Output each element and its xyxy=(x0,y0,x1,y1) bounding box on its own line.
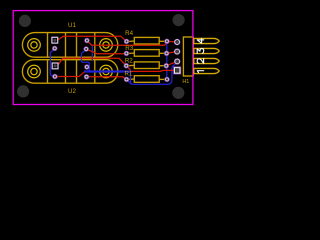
blue trace R2L R1L to H1 pin2 xyxy=(126,62,177,85)
pad R2 right xyxy=(164,63,169,68)
pad H1 pin2 xyxy=(174,58,181,65)
U2 big pad right xyxy=(100,65,113,78)
pad U2 pin square xyxy=(52,63,58,69)
H1 pin 1 xyxy=(194,68,219,73)
svg-text:H1: H1 xyxy=(182,79,189,85)
pad U1 col2 bottom xyxy=(84,46,89,51)
svg-text:R3: R3 xyxy=(125,45,133,52)
svg-text:U1: U1 xyxy=(68,22,76,29)
red trace U1 col2 bottom to R3 left xyxy=(86,49,126,54)
mounting hole bottom-right xyxy=(172,87,184,99)
svg-text:R1: R1 xyxy=(125,71,133,78)
mounting hole bottom-left xyxy=(17,85,29,97)
pad R3 right xyxy=(164,51,169,56)
blue stub from U1 col2 top xyxy=(90,43,93,60)
resistor R1 body xyxy=(129,76,164,83)
relay U2 silkscreen outline xyxy=(22,60,117,83)
H1 pin 3 xyxy=(194,48,219,53)
U1 big pad left xyxy=(28,39,41,52)
svg-text:U2: U2 xyxy=(68,88,76,95)
mounting hole top-right xyxy=(173,14,185,26)
red trace U1 col2 top to R4 right xyxy=(87,41,167,46)
pad U1 round below square xyxy=(52,46,57,51)
pad H1 pin3 xyxy=(174,48,181,55)
pin number 1 xyxy=(197,71,204,73)
red trace to H1 pin1 square xyxy=(130,70,177,71)
pin number 4 xyxy=(197,38,204,43)
red trace U2 col2 bottom to R1 left xyxy=(87,77,127,80)
blue bus right pads R4-R3-R2-R1 xyxy=(166,41,168,79)
H1 pin 2 xyxy=(194,58,219,63)
board edge cuts outline xyxy=(13,11,193,105)
resistor R2 body xyxy=(129,62,164,69)
red trace U2 round to layer change xyxy=(55,72,85,77)
resistor R4 body xyxy=(129,37,164,44)
blue branch R1 left pad xyxy=(127,79,132,84)
red trace U2 square to R2 left xyxy=(58,58,126,65)
red trace R4 right to H1 pin4 xyxy=(167,40,177,43)
pad U2 col2 top xyxy=(84,64,89,69)
svg-text:R4: R4 xyxy=(125,30,133,37)
pad R2 left xyxy=(124,63,129,68)
blue trace U1 pad2 to U2 pad2 xyxy=(50,48,55,76)
red trace U1 square to R4 left xyxy=(58,36,126,41)
pad R1 left xyxy=(124,77,129,82)
svg-text:R2: R2 xyxy=(125,58,133,65)
blue trace U1 col2 bottom to U2 col2 top xyxy=(81,49,92,71)
pad U2 col2 bottom xyxy=(84,74,89,79)
mounting hole top-left xyxy=(19,15,31,27)
red trace R3 right to H1 pin3 xyxy=(167,52,178,54)
resistor R3 body xyxy=(129,50,164,57)
pad R1 right xyxy=(164,77,169,82)
blue fat trace through U2 right pad xyxy=(84,70,130,72)
pad H1 pin1 square xyxy=(174,67,181,74)
connector H1 body xyxy=(183,37,193,76)
U1 big pad right xyxy=(100,39,113,52)
H1 pin 4 xyxy=(194,38,219,43)
pin number 3 xyxy=(197,49,204,54)
pin number 2 xyxy=(197,59,203,64)
relay U1 silkscreen outline xyxy=(22,33,117,58)
red branch R2 left down xyxy=(126,66,130,70)
U2 big pad left xyxy=(28,65,41,78)
pad R4 left xyxy=(124,39,129,44)
pad U1 pin square xyxy=(52,37,58,43)
pad R3 left xyxy=(124,51,129,56)
pad R4 right xyxy=(164,39,169,44)
pad U2 round below square xyxy=(52,74,57,79)
pad U1 col2 top xyxy=(84,38,89,43)
red trace R2 right to H1 pin2 xyxy=(166,61,177,65)
pad H1 pin4 xyxy=(174,39,181,46)
